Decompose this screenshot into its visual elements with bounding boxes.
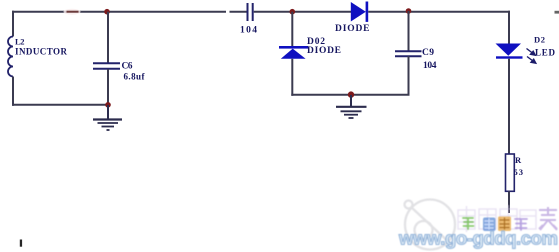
node junction top of C6: [104, 9, 110, 15]
node junction at D02 branch: [290, 9, 296, 15]
capacitor C6 plates: [93, 63, 120, 68]
stray mark top right edge: [555, 11, 559, 14]
node junction at middle ground: [348, 91, 354, 97]
wire top segment from inductor to series capacitor: [12, 11, 247, 13]
ground symbol middle: [336, 95, 367, 118]
resistor R box: [506, 154, 515, 191]
LED D2: [496, 44, 523, 59]
wire C6 branch upper: [107, 12, 109, 63]
svg-text:L2: L2: [15, 37, 25, 47]
node junction bottom of C6: [105, 102, 111, 108]
wire C9 branch upper: [408, 11, 410, 51]
svg-text:www.go-gddq.com: www.go-gddq.com: [398, 228, 558, 249]
wire from series diode to top right corner: [368, 11, 510, 13]
wire below resistor: [508, 191, 510, 213]
stray mark bottom left: [20, 240, 22, 247]
diode D02: [279, 46, 308, 59]
wire bottom left net: [12, 104, 109, 106]
wire left vertical top (inductor top lead): [12, 11, 14, 37]
svg-text:53: 53: [514, 167, 524, 177]
svg-text:6.8uf: 6.8uf: [124, 72, 146, 82]
svg-text:104: 104: [423, 61, 437, 71]
wire left vertical bottom (inductor bottom lead): [12, 77, 14, 106]
wire right branch corner down to LED: [508, 11, 510, 44]
watermark chinese characters outline row: [458, 205, 536, 232]
capacitor C9 plates: [395, 51, 422, 56]
LED emission arrows: [527, 49, 536, 64]
diode series DIODE: [351, 2, 368, 22]
svg-text:D2: D2: [534, 35, 545, 45]
capacitor C4 series plates: [248, 3, 253, 21]
watermark logo circles: [405, 200, 456, 250]
watermark large purple character right: [539, 207, 557, 230]
wire D02 branch lower: [291, 59, 293, 96]
junction artifact red tint on top wire: [64, 9, 81, 15]
svg-text:DIODE: DIODE: [307, 46, 341, 56]
svg-text:INDUCTOR: INDUCTOR: [15, 47, 68, 57]
wire LED to resistor: [508, 59, 510, 155]
wire C6 branch lower: [107, 69, 109, 105]
ground symbol left: [93, 105, 122, 130]
wire between series capacitor and series diode: [254, 11, 351, 13]
svg-text:DIODE: DIODE: [335, 24, 370, 34]
svg-text:LED: LED: [535, 48, 556, 58]
inductor L2 coil: [8, 37, 13, 77]
wire bottom middle net: [291, 94, 409, 96]
svg-text:R: R: [515, 155, 522, 165]
wire C9 branch lower: [408, 56, 410, 95]
wire D02 branch upper: [291, 12, 293, 47]
svg-text:104: 104: [240, 26, 257, 36]
svg-text:C6: C6: [122, 62, 133, 72]
watermark chinese characters colored row: [463, 217, 527, 232]
node junction at C9 branch: [406, 8, 412, 14]
svg-text:C9: C9: [422, 48, 434, 58]
